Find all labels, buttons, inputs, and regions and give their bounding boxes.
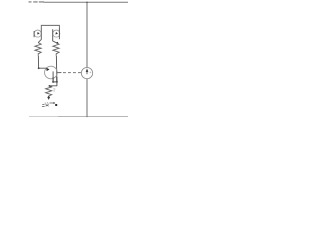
transistor Q3 emitter bar	[52, 71, 54, 82]
label dot	[55, 104, 57, 106]
transistor Q1 base bar	[33, 31, 35, 37]
transistor Q1 (left top symbol)	[34, 30, 41, 37]
label current annotation arrow	[45, 102, 49, 105]
node at top rail junction	[86, 2, 88, 4]
transistor Q2 emitter arrow	[55, 32, 58, 35]
label value text	[42, 104, 49, 106]
node Q3 emitter	[52, 81, 54, 83]
transistor Q1 emitter arrow	[37, 32, 40, 35]
wire R2 to Q3 collector	[55, 56, 57, 82]
node at bottom rail junction	[86, 116, 88, 118]
resistor RE	[46, 86, 52, 97]
wire Q3 emitter down and left to RE	[49, 82, 57, 86]
wire top connector U between branches	[41, 25, 59, 29]
wire from current source to bottom rail	[86, 79, 88, 117]
transistor Q3 base arrow	[46, 68, 49, 72]
dashed equivalence link to I1	[63, 72, 81, 74]
node at R2 top	[56, 42, 58, 44]
wire Q1 lead down to R1	[38, 29, 41, 43]
transistor Q3	[45, 66, 58, 79]
current source I1	[81, 67, 92, 78]
node base junction	[38, 67, 40, 69]
transistor Q2 (right top symbol)	[53, 30, 60, 37]
label RE	[53, 89, 55, 91]
wire joining Q3 bottom nodes	[53, 81, 57, 83]
wire from top rail to current source I1	[86, 2, 88, 67]
current source I1 arrow	[86, 71, 88, 74]
wire Q3 lower leads emphasis	[53, 77, 57, 82]
VCC top rail	[44, 1, 129, 3]
ground	[48, 96, 50, 98]
transistor Q2 base bar and emitter path to R2	[53, 29, 56, 42]
wire base lead into Q3	[39, 67, 47, 69]
wire R1 to base node	[37, 56, 39, 68]
resistor R2	[53, 43, 59, 56]
VCC top rail (dashed left segment)	[29, 1, 45, 3]
transistor Q2 collector lead from U	[58, 29, 60, 40]
wire Q3 stub to dashed link	[57, 72, 61, 74]
resistor R1	[35, 43, 41, 56]
node RE top	[49, 85, 51, 87]
ground bottom rail	[29, 115, 58, 117]
node Q3 collector bottom	[56, 81, 58, 83]
